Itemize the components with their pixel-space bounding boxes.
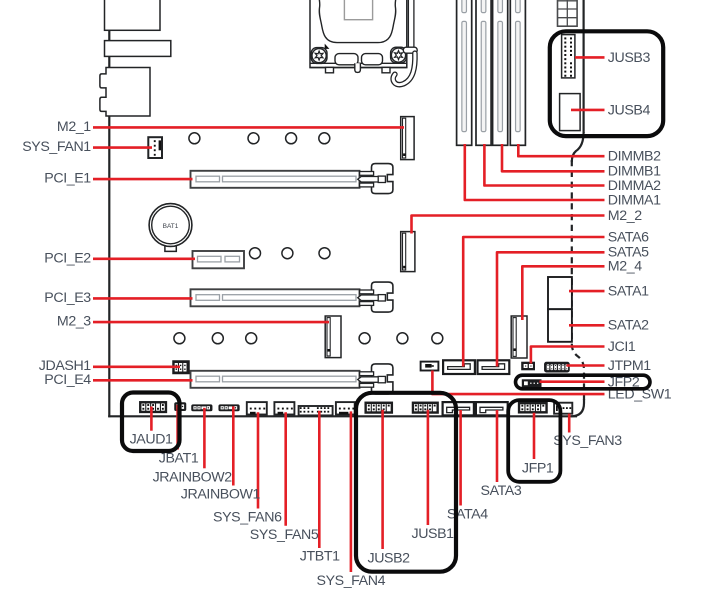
- CPU socket left foot: [326, 67, 334, 72]
- connector SATA4: [443, 402, 474, 415]
- connector JRAINBOW1: [219, 405, 239, 410]
- M.2 slot M2_4: [511, 316, 527, 358]
- svg-text:SATA3: SATA3: [481, 483, 522, 499]
- svg-text:M2_4: M2_4: [608, 259, 642, 275]
- highlight box JUSB1/JUSB2: [356, 393, 456, 572]
- wire callout JFP2: [540, 380, 605, 383]
- connector rear-IO block 1: [105, 0, 161, 30]
- svg-text:DIMMB2: DIMMB2: [608, 149, 661, 165]
- svg-text:JCI1: JCI1: [608, 339, 636, 355]
- wire callout DIMMA1: [465, 144, 605, 200]
- wire callout M2_1: [93, 126, 404, 129]
- svg-text:JUSB3: JUSB3: [608, 50, 651, 66]
- PCIe slot PCI_E3: [191, 289, 360, 306]
- svg-text:JTPM1: JTPM1: [608, 358, 651, 374]
- mounting holes row 1: [189, 133, 330, 144]
- connector JAUD1: [140, 402, 166, 412]
- wire callout SYS_FAN4 drop: [350, 411, 353, 572]
- connector SYS_FAN5: [274, 402, 294, 414]
- wire callout PCI_E4: [93, 379, 193, 382]
- wire callout SATA4 drop: [459, 410, 462, 506]
- connector SYS_FAN6: [247, 402, 267, 414]
- svg-text:M2_2: M2_2: [608, 208, 642, 224]
- PCIe slot PCI_E2: [193, 251, 245, 268]
- wire callout JUSB3: [575, 56, 605, 59]
- connector SATA1: [548, 277, 572, 309]
- wire callout JUSB2 drop: [381, 410, 384, 549]
- CPU socket left screw: [312, 49, 326, 63]
- connector SATA2: [548, 309, 572, 342]
- CPU socket lever rails: [407, 0, 409, 47]
- svg-text:PCI_E4: PCI_E4: [44, 372, 91, 388]
- wire callout SYS_FAN1: [93, 146, 152, 149]
- svg-text:JUSB1: JUSB1: [412, 526, 455, 542]
- connector JRAINBOW2: [192, 405, 212, 410]
- connector SYS_FAN1: [148, 137, 162, 158]
- connector rear-IO block 2: [105, 41, 171, 57]
- CPU socket lever hook: [393, 53, 415, 84]
- wire callout PCI_E1: [93, 178, 193, 181]
- wire board left edge: [108, 0, 110, 417]
- connector JBAT1: [175, 403, 186, 410]
- wire board right edge dashed lower curve: [572, 344, 584, 400]
- CPU pad rect: [344, 0, 372, 20]
- connector JCI1: [522, 363, 534, 370]
- wire callout SATA6: [463, 237, 604, 367]
- wire callout JCI1: [531, 347, 605, 364]
- M.2 slot M2_3: [325, 316, 341, 358]
- M.2 slot M2_2: [401, 232, 415, 272]
- mounting holes row 3: [174, 333, 443, 344]
- svg-text:M2_3: M2_3: [57, 314, 91, 330]
- highlight box JUSB3/JUSB4: [550, 31, 663, 136]
- M.2 slot M2_1: [401, 117, 414, 160]
- wire callout DIMMB2: [518, 144, 604, 156]
- wire callout M2_2: [412, 216, 605, 234]
- wire callout SATA5: [497, 252, 605, 366]
- svg-text:PCI_E3: PCI_E3: [44, 290, 91, 306]
- connector JUSB2: [365, 402, 392, 413]
- PCIe slot PCI_E4: [191, 371, 360, 388]
- svg-text:JAUD1: JAUD1: [130, 432, 173, 448]
- connector SYS_FAN3: [554, 403, 572, 414]
- wire callout LED_SW1: [432, 371, 604, 395]
- svg-text:SYS_FAN5: SYS_FAN5: [250, 527, 319, 543]
- svg-text:JTBT1: JTBT1: [300, 549, 340, 565]
- svg-text:JUSB2: JUSB2: [368, 550, 411, 566]
- svg-text:JRAINBOW2: JRAINBOW2: [153, 469, 233, 485]
- CPU socket right screw housing: [391, 47, 407, 63]
- CPU socket triangle marker: [325, 44, 330, 49]
- svg-text:SATA6: SATA6: [608, 229, 649, 245]
- svg-text:SYS_FAN6: SYS_FAN6: [213, 510, 282, 526]
- connector JDASH1: [173, 361, 189, 373]
- CPU socket lever cap: [403, 47, 417, 53]
- wire board right edge curve to dashed: [572, 132, 584, 162]
- CPU socket right screw: [391, 48, 405, 62]
- wire board bottom-right corner: [571, 399, 584, 416]
- wire callout SYS_FAN5 drop: [284, 412, 287, 526]
- wire callout DIMMA2: [484, 144, 604, 186]
- svg-text:PCI_E1: PCI_E1: [44, 171, 91, 187]
- wire callout JBAT1 drop: [176, 405, 179, 450]
- highlight box JFP1: [508, 400, 560, 482]
- svg-text:SYS_FAN1: SYS_FAN1: [22, 139, 91, 155]
- connector JTPM1: [545, 363, 569, 372]
- wire callout JRAINBOW1 drop: [232, 406, 235, 485]
- svg-text:SYS_FAN4: SYS_FAN4: [317, 573, 386, 589]
- wire callout JUSB1 drop: [427, 410, 430, 525]
- CPU socket right foot: [382, 67, 390, 72]
- wire board right edge dashed middle: [571, 160, 573, 344]
- PCIe latch of PCI_E1: [358, 164, 393, 194]
- CPU socket outer bracket: [310, 0, 407, 68]
- battery BAT1: [149, 204, 192, 252]
- CPU socket opening: [318, 0, 396, 43]
- svg-text:SATA1: SATA1: [608, 284, 649, 300]
- PCIe slot PCI_E1: [191, 171, 360, 188]
- DIMM slot DIMMA1: [457, 0, 472, 145]
- CPU socket left screw housing: [311, 48, 327, 64]
- wire callout SATA3 drop: [496, 410, 499, 482]
- svg-text:JUSB4: JUSB4: [608, 102, 651, 118]
- connector SATA3: [476, 402, 508, 415]
- connector ATX_PWR1 8-pin: [558, 0, 578, 26]
- PCIe latch of PCI_E4: [358, 364, 393, 394]
- wire callout M2_4: [522, 266, 604, 320]
- wire callout JRAINBOW2 drop: [203, 408, 206, 469]
- svg-text:JRAINBOW1: JRAINBOW1: [181, 487, 261, 503]
- CPU socket bottom bar: [310, 63, 406, 67]
- wire callout PCI_E2: [93, 257, 195, 260]
- connector SYS_FAN4: [336, 402, 355, 414]
- wire callout SATA1: [569, 290, 605, 293]
- wire callout DIMMB1: [502, 144, 605, 171]
- connector JUSB3 USB3 header: [562, 35, 575, 78]
- wire callout JFP1 drop: [533, 413, 536, 459]
- connector SATA5: [478, 360, 510, 374]
- wire callout JAUD1 drop: [150, 407, 153, 431]
- svg-text:M2_1: M2_1: [57, 119, 91, 135]
- connector JFP1: [519, 403, 547, 413]
- wire callout SYS_FAN6 drop: [257, 412, 260, 508]
- mounting holes row 2: [250, 248, 331, 259]
- wire callout PCI_E3: [93, 297, 193, 300]
- wire callout JTPM1: [567, 364, 605, 367]
- connector LED_SW1: [421, 362, 439, 371]
- wire callout SYS_FAN3 drop: [568, 414, 571, 433]
- svg-text:JFP1: JFP1: [522, 460, 554, 476]
- connector JFP2: [523, 380, 541, 386]
- connector rear-IO block 3: [100, 68, 150, 117]
- svg-text:SYS_FAN3: SYS_FAN3: [553, 433, 622, 449]
- PCIe latch of PCI_E3: [358, 282, 393, 312]
- CPU socket load plate wing cutout right: [362, 54, 383, 65]
- connector SATA6: [443, 360, 475, 374]
- svg-text:DIMMA1: DIMMA1: [608, 192, 661, 208]
- svg-text:BAT1: BAT1: [163, 223, 179, 230]
- wire callout JDASH1: [93, 365, 180, 368]
- wire callout JUSB4: [571, 109, 605, 112]
- DIMM slot DIMMB1: [493, 0, 508, 145]
- DIMM slot DIMMA2: [476, 0, 491, 145]
- svg-text:SATA2: SATA2: [608, 318, 649, 334]
- highlight box JAUD1: [122, 393, 180, 452]
- wire callout JTBT1 drop: [318, 411, 321, 548]
- CPU socket center tab: [355, 63, 361, 72]
- DIMM slot DIMMB2: [510, 0, 525, 145]
- svg-text:PCI_E2: PCI_E2: [44, 250, 91, 266]
- wire callout SATA2: [569, 324, 605, 327]
- connector JUSB4 USB-C header: [560, 94, 581, 131]
- wire board bottom edge: [108, 415, 577, 417]
- connector JTBT1: [299, 406, 333, 415]
- highlight box JFP2: [516, 375, 651, 389]
- wire callout M2_3: [93, 321, 329, 324]
- connector JUSB1: [413, 402, 438, 413]
- wire board right edge solid top: [582, 0, 584, 133]
- CPU socket load plate wing cutout left: [335, 54, 358, 65]
- svg-text:SATA4: SATA4: [447, 507, 488, 523]
